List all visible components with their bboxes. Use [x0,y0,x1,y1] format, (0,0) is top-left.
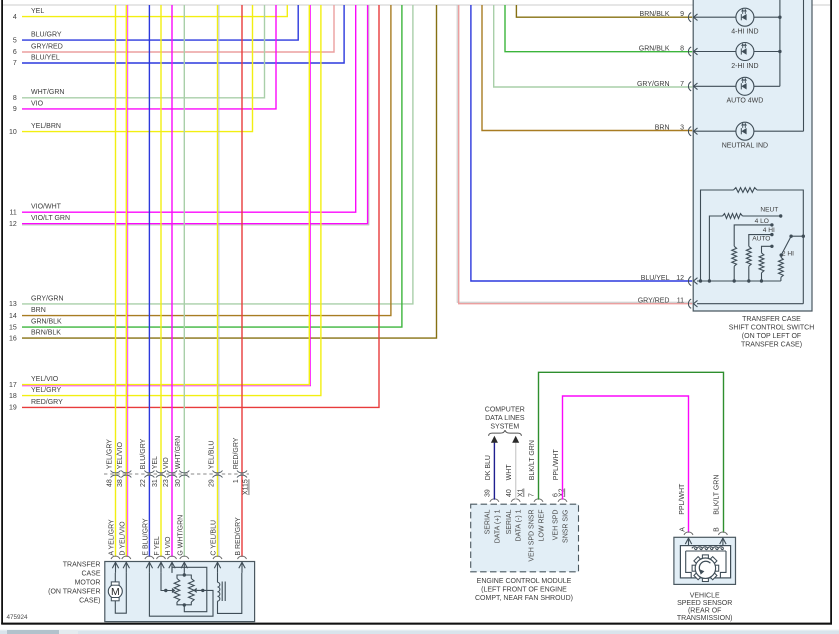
svg-text:8: 8 [13,95,17,102]
svg-text:A YEL/GRY: A YEL/GRY [109,519,116,556]
VSS tone wheel gear [702,555,708,558]
svg-text:(ON TRANSFER: (ON TRANSFER [48,588,100,595]
svg-text:GRY/RED: GRY/RED [638,298,670,305]
svg-text:4 HI: 4 HI [763,227,775,234]
resistor top [734,188,758,193]
svg-text:GRN/BLK: GRN/BLK [639,46,670,53]
svg-text:COMPT, NEAR FAN SHROUD): COMPT, NEAR FAN SHROUD) [475,595,573,602]
svg-text:(REAR OF: (REAR OF [688,607,721,614]
svg-text:COMPUTER: COMPUTER [485,406,525,413]
indicator lamp 2-HI IND [688,47,691,56]
svg-text:11: 11 [10,209,17,216]
svg-text:GRY/GRN: GRY/GRN [637,81,670,88]
svg-text:TRANSFER CASE): TRANSFER CASE) [741,342,802,349]
left pin 8 wire WHT/GRN [22,5,265,98]
resistor AUTO [759,253,764,273]
svg-text:5: 5 [13,37,17,44]
transfer case shift control switch box [693,0,812,311]
indicator lamp 4-HI IND [688,13,691,22]
svg-text:7: 7 [13,60,17,67]
svg-text:18: 18 [9,393,17,400]
motor box terminal B [238,556,247,559]
svg-text:YEL/VIO: YEL/VIO [117,442,124,470]
svg-text:YEL/GRY: YEL/GRY [31,387,62,394]
svg-text:11: 11 [677,298,684,305]
svg-text:GRN/BLK: GRN/BLK [31,319,62,326]
svg-text:SNSR SIG: SNSR SIG [562,510,569,543]
svg-text:VEH SPD SNSR: VEH SPD SNSR [529,510,536,562]
svg-text:WHT/GRN: WHT/GRN [31,89,64,96]
vehicle speed sensor box [674,537,736,584]
inline connector at column WHT/GRN [179,471,189,473]
svg-text:23: 23 [163,479,170,487]
left pin 18 wire YEL/GRY [22,5,321,396]
svg-text:(ON TOP LEFT OF: (ON TOP LEFT OF [742,333,801,340]
inline connector at column YEL/GRY [111,471,121,473]
drawing frame bottom border [1,623,832,625]
AUTO branch [761,273,763,281]
bridge right resistor [184,575,191,579]
svg-text:NEUTRAL IND: NEUTRAL IND [722,143,768,150]
svg-text:4 LO: 4 LO [755,218,769,225]
drawing frame left border [1,0,3,624]
left pin 11 wire VIO/WHT [22,5,356,212]
svg-text:29: 29 [208,479,215,487]
svg-text:H VIO: H VIO [165,536,172,556]
motor box terminal H [168,556,177,559]
wire column YEL to transfer case motor pin F [160,5,162,557]
svg-text:31: 31 [152,479,159,487]
top cut line [3,4,830,6]
bottom toolbar strip [0,630,839,634]
ECM terminal 6 [558,499,567,502]
svg-text:14: 14 [9,313,17,320]
ECM terminal 40 [511,499,520,502]
computer data lines brace [489,430,522,436]
svg-text:BLK/LT GRN: BLK/LT GRN [713,475,720,515]
left pin 14 wire BRN [22,5,391,316]
inline connector at column VIO [167,471,177,473]
svg-text:15: 15 [9,324,17,331]
svg-text:4-HI IND: 4-HI IND [731,29,758,36]
svg-text:GRY/GRN: GRY/GRN [31,295,64,302]
pin 11 wiper line [688,299,691,308]
left pin 4 wire YEL [22,5,287,17]
svg-text:3: 3 [680,124,684,131]
svg-text:BRN: BRN [655,124,670,131]
svg-text:475924: 475924 [7,614,29,621]
VSS terminal B [718,532,727,535]
left pin 17 wire YEL/VIO [22,5,309,385]
svg-text:(LEFT FRONT OF ENGINE: (LEFT FRONT OF ENGINE [481,587,567,594]
drawing frame right border [830,0,832,624]
left pin 19 wire RED/GRY [22,5,379,407]
gear rotation arrow [699,561,710,572]
svg-text:9: 9 [13,106,17,113]
wire column BLU/GRY to transfer case motor pin E [148,5,150,557]
svg-text:40: 40 [506,489,513,497]
svg-text:WHT: WHT [506,464,513,481]
svg-text:C YEL/BLU: C YEL/BLU [211,520,218,556]
lamp supply rail 2 [803,0,805,131]
left pin 9 wire VIO [22,5,276,109]
junction dot rail / 4-HI IND [778,16,781,19]
wire column WHT/GRN to transfer case motor pin G [183,5,185,557]
junction dot rail / 2-HI IND [778,50,781,53]
svg-text:16: 16 [9,335,17,342]
wire column YEL/BLU to transfer case motor pin C [217,5,219,557]
resistor 4 LO [732,246,737,266]
wire column YEL/GRY to transfer case motor pin A [115,5,117,557]
svg-text:AUTO: AUTO [752,235,770,242]
wire to transfer case switch pin 3 BRN [482,5,692,131]
wire to transfer case switch pin 8 GRN/BLK [505,5,692,52]
svg-text:SERIAL: SERIAL [506,509,513,534]
wire to transfer case switch pin 7 GRY/GRN [494,5,693,87]
svg-text:30: 30 [175,479,182,487]
svg-text:X115: X115 [243,479,250,495]
svg-text:F YEL: F YEL [154,536,161,555]
wire to transfer case switch pin 12 BLU/YEL [471,5,692,281]
svg-text:7: 7 [680,81,684,88]
svg-text:39: 39 [485,489,492,497]
left pin 15 wire GRN/BLK [22,5,402,327]
svg-text:2 HI: 2 HI [782,251,794,258]
svg-text:NEUT: NEUT [760,206,778,213]
svg-text:SERIAL: SERIAL [485,509,492,534]
svg-text:AUTO 4WD: AUTO 4WD [726,98,763,105]
svg-text:VEHICLE: VEHICLE [690,592,720,599]
inline connector at column YEL/BLU [213,471,223,473]
indicator lamp AUTO 4WD [688,82,691,91]
svg-text:DATA (+) 1: DATA (+) 1 [494,509,501,543]
bridge resistor left [174,579,180,603]
svg-text:9: 9 [680,11,684,18]
svg-text:RED/GRY: RED/GRY [31,399,63,406]
wire column RED/GRY to transfer case motor pin B [241,5,243,557]
resistor NEUT [723,214,743,219]
indicator lamp NEUTRAL IND [688,127,691,136]
svg-text:BLK/LT GRN: BLK/LT GRN [529,440,536,480]
VSS terminal A [684,532,693,535]
left pin 12 wire VIO/LT GRN [22,5,368,224]
wire BLK/LT GRN low ref [539,372,724,533]
svg-text:12: 12 [676,275,684,282]
ECM terminal 39 [490,499,499,502]
bridge resistor right [189,579,195,603]
motor box terminal D [122,556,131,559]
wire column YEL/VIO to transfer case motor pin D [125,5,127,557]
svg-text:PPL/WHT: PPL/WHT [679,483,686,515]
svg-text:22: 22 [140,479,147,487]
4 LO branch [733,266,735,281]
inline connector at column YEL/VIO [121,471,131,473]
svg-text:BLU/YEL: BLU/YEL [641,275,670,282]
transfer case motor box [105,562,255,622]
svg-text:CASE): CASE) [79,597,100,604]
ECM terminal 7 [534,499,543,502]
svg-text:BLU/YEL: BLU/YEL [31,54,60,61]
svg-text:17: 17 [9,382,17,389]
wire to transfer case switch pin 9 BRN/BLK [516,5,692,17]
wire DK BLU serial data + [493,442,495,500]
svg-text:19: 19 [9,405,17,412]
wire WHT serial data - [515,442,517,500]
svg-text:YEL/BRN: YEL/BRN [31,123,61,130]
svg-text:D YEL/VIO: D YEL/VIO [120,521,127,556]
svg-text:YEL/BLU: YEL/BLU [208,441,215,470]
svg-text:VEH SPD: VEH SPD [553,510,560,541]
svg-text:LOW REF: LOW REF [538,510,545,542]
svg-text:B: B [714,527,721,532]
switch network bus from pin 12 [688,276,691,285]
svg-text:VIO/WHT: VIO/WHT [31,204,62,211]
svg-text:12: 12 [9,221,17,228]
svg-text:8: 8 [680,46,684,53]
svg-text:6: 6 [13,49,17,56]
svg-text:X1: X1 [518,488,525,497]
svg-text:BLU/GRY: BLU/GRY [31,32,62,39]
svg-text:7: 7 [529,493,536,497]
wiper F arrow [161,573,172,591]
svg-text:E BLU/GRY: E BLU/GRY [143,518,150,556]
VSS coil winding [692,547,697,550]
svg-text:VIO: VIO [163,457,170,470]
svg-text:YEL/GRY: YEL/GRY [106,439,113,470]
motor box terminal F [157,556,166,559]
top resistor loop [701,190,734,281]
svg-text:10: 10 [9,129,17,136]
svg-text:13: 13 [9,301,17,308]
svg-text:GRY/RED: GRY/RED [31,43,63,50]
svg-text:2-HI IND: 2-HI IND [731,63,758,70]
svg-text:YEL: YEL [152,456,159,469]
svg-text:38: 38 [117,479,124,487]
bridge left resistor [177,575,184,579]
H path to bottom node [172,567,207,611]
inline connector at column YEL [156,471,166,473]
svg-text:TRANSFER CASE: TRANSFER CASE [742,316,801,323]
motor M [114,573,116,582]
C-B sensor coil [217,573,219,583]
svg-text:WHT/GRN: WHT/GRN [175,436,182,469]
svg-text:SHIFT CONTROL SWITCH: SHIFT CONTROL SWITCH [729,325,815,332]
inline connector X115 dashed line [104,473,249,475]
coil core bars [221,582,223,602]
motor box terminal E [145,556,154,559]
svg-text:DK BLU: DK BLU [485,455,492,480]
left pin 5 wire BLU/GRY [22,5,298,40]
svg-text:48: 48 [106,479,113,487]
motor box terminal G [180,556,189,559]
left pin 6 wire GRY/RED [22,5,334,52]
svg-text:BRN: BRN [31,307,46,314]
resistor 4 HI [746,246,751,266]
4 HI branch [748,266,750,281]
svg-text:DATA (-) 1: DATA (-) 1 [516,509,523,541]
lamp supply rail 1 [779,0,781,86]
inline connector at column BLU/GRY [144,471,154,473]
wire column VIO to transfer case motor pin H [171,5,173,557]
engine control module box [471,504,579,572]
motor box terminal A [111,556,120,559]
motor box terminal C [213,556,222,559]
inline connector at column RED/GRY [237,471,247,473]
svg-text:MOTOR: MOTOR [75,579,101,586]
svg-text:BRN/BLK: BRN/BLK [31,330,61,337]
svg-text:CASE: CASE [81,570,100,577]
left pin 13 wire GRY/GRN [22,5,413,304]
switch wiper [781,236,791,255]
svg-text:SPEED SENSOR: SPEED SENSOR [677,600,732,607]
wire to transfer case switch pin 11 GRY/RED [457,5,692,302]
resistor 2 HI [779,257,784,277]
svg-text:1: 1 [233,479,240,483]
svg-text:G WHT/GRN: G WHT/GRN [178,515,185,556]
svg-text:SYSTEM: SYSTEM [490,423,519,430]
encoder bridge: G to top node [183,573,185,575]
NEUT branch resistor [709,216,722,281]
VSS pickup coil body [680,546,730,578]
svg-text:ENGINE CONTROL MODULE: ENGINE CONTROL MODULE [477,578,572,585]
left pin 7 wire BLU/YEL [22,5,344,63]
left pin 16 wire BRN/BLK [22,5,437,338]
svg-text:4: 4 [13,14,17,21]
svg-text:TRANSFER: TRANSFER [63,561,101,568]
svg-text:BRN/BLK: BRN/BLK [640,11,670,18]
svg-text:TRANSMISSION): TRANSMISSION) [677,615,733,622]
wire PPL/WHT sensor signal [563,396,689,533]
svg-text:B RED/GRY: B RED/GRY [235,517,242,556]
svg-text:M: M [111,586,120,598]
svg-text:BLU/GRY: BLU/GRY [140,438,147,469]
svg-text:VIO/LT GRN: VIO/LT GRN [31,215,70,222]
svg-text:A: A [679,527,686,532]
left pin 10 wire YEL/BRN [22,5,253,132]
2 HI branch [780,277,782,281]
svg-text:YEL/VIO: YEL/VIO [31,376,59,383]
motor wiring A-D loop [115,573,126,613]
wiper E arrow [149,573,213,616]
svg-text:PPL/WHT: PPL/WHT [553,448,560,480]
svg-text:YEL: YEL [31,8,44,15]
svg-text:DATA LINES: DATA LINES [485,415,525,422]
junction dots on switch bus [699,279,702,282]
svg-text:VIO: VIO [31,100,44,107]
svg-text:RED/GRY: RED/GRY [233,437,240,469]
